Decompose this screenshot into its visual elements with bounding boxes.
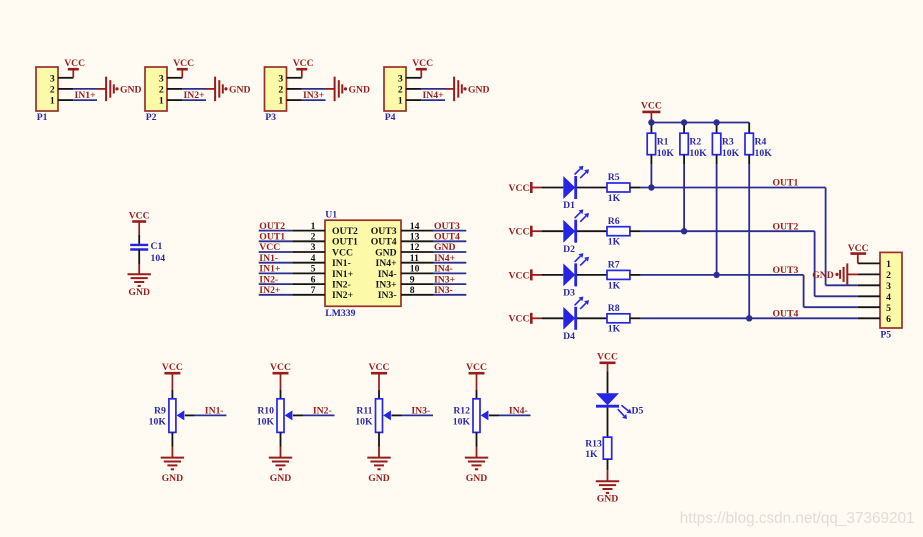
U1 pin 13 stub bbox=[401, 232, 433, 243]
wire OUT3 to P5 bbox=[804, 275, 858, 307]
svg-text:OUT2: OUT2 bbox=[332, 226, 358, 237]
power VCC at R11 bbox=[369, 362, 390, 390]
svg-text:3: 3 bbox=[311, 242, 316, 253]
power VCC at D3 bbox=[509, 269, 543, 281]
svg-text:D5: D5 bbox=[632, 405, 644, 416]
P5 pin 5 stub bbox=[858, 306, 880, 308]
svg-text:14: 14 bbox=[410, 221, 420, 232]
svg-text:IN1+: IN1+ bbox=[75, 90, 97, 101]
svg-text:VCC: VCC bbox=[270, 362, 291, 373]
svg-text:R6: R6 bbox=[608, 216, 620, 227]
svg-text:OUT2: OUT2 bbox=[259, 221, 285, 232]
svg-text:VCC: VCC bbox=[509, 227, 530, 238]
wire U1 pin 11 bbox=[433, 262, 466, 264]
svg-text:IN1-: IN1- bbox=[259, 253, 278, 264]
P1 pin 2 stub bbox=[58, 88, 73, 90]
svg-text:10K: 10K bbox=[657, 148, 675, 159]
R10 bottom stub bbox=[280, 432, 282, 457]
svg-text:IN3+: IN3+ bbox=[375, 280, 397, 291]
D4 cathode stub bbox=[577, 317, 607, 319]
svg-text:1K: 1K bbox=[608, 237, 621, 248]
svg-text:3: 3 bbox=[278, 73, 283, 84]
R12 top stub bbox=[476, 390, 478, 399]
net label IN3- right bbox=[434, 285, 453, 296]
R2 top stub bbox=[683, 123, 685, 134]
R9 bottom stub bbox=[171, 432, 173, 457]
svg-text:OUT3: OUT3 bbox=[371, 226, 397, 237]
svg-text:https://blog.csdn.net/qq_37369: https://blog.csdn.net/qq_37369201 bbox=[680, 510, 915, 527]
svg-text:IN4+: IN4+ bbox=[434, 253, 456, 264]
svg-text:IN4-: IN4- bbox=[434, 264, 453, 275]
junction OUT3 bbox=[713, 272, 719, 278]
svg-text:VCC: VCC bbox=[509, 183, 530, 194]
svg-text:OUT3: OUT3 bbox=[773, 265, 799, 276]
ground GND at D5 bbox=[596, 481, 619, 504]
R3 top stub bbox=[716, 123, 718, 134]
power VCC at D4 bbox=[509, 313, 543, 325]
P4 pin 1 stub bbox=[406, 99, 421, 101]
wire P2 pin2 to GND bbox=[182, 88, 215, 90]
power VCC at P1 bbox=[64, 58, 85, 78]
svg-text:IN4-: IN4- bbox=[378, 269, 397, 280]
net label IN1- bbox=[205, 406, 224, 417]
svg-text:GND: GND bbox=[368, 473, 390, 484]
resistor R1 10K bbox=[647, 133, 674, 159]
svg-text:9: 9 bbox=[410, 274, 415, 285]
P5 pin 3 stub bbox=[858, 284, 880, 286]
svg-text:IN2+: IN2+ bbox=[184, 90, 206, 101]
net label IN2- left bbox=[259, 274, 278, 285]
svg-text:10K: 10K bbox=[257, 416, 275, 427]
wire OUT4 bbox=[641, 317, 858, 319]
R13 bottom stub bbox=[607, 459, 609, 481]
resistor R6 1K bbox=[607, 216, 630, 248]
svg-text:10K: 10K bbox=[755, 148, 773, 159]
R10 top stub bbox=[280, 390, 282, 399]
junction OUT2 bbox=[681, 228, 687, 234]
connector P4 bbox=[384, 67, 406, 123]
U1 pin 6 stub bbox=[292, 274, 325, 285]
net label IN3- bbox=[411, 406, 430, 417]
P4 pin 3 stub bbox=[406, 77, 421, 79]
svg-text:IN1+: IN1+ bbox=[259, 264, 281, 275]
power VCC at P4 bbox=[412, 58, 433, 78]
svg-text:1K: 1K bbox=[608, 324, 621, 335]
P2 pin 2 stub bbox=[167, 88, 182, 90]
svg-text:OUT4: OUT4 bbox=[371, 237, 397, 248]
svg-text:P5: P5 bbox=[880, 330, 891, 341]
svg-text:VCC: VCC bbox=[259, 242, 280, 253]
svg-text:OUT2: OUT2 bbox=[773, 221, 799, 232]
wire U1 pin 13 bbox=[433, 240, 466, 242]
svg-text:OUT1: OUT1 bbox=[773, 178, 799, 189]
resistor R5 1K bbox=[607, 172, 630, 204]
resistor R3 10K bbox=[712, 133, 739, 159]
ground GND at P5 bbox=[812, 263, 858, 285]
svg-text:IN3+: IN3+ bbox=[434, 274, 456, 285]
ground GND at R9 bbox=[161, 458, 184, 484]
P1 pin 3 stub bbox=[58, 77, 73, 79]
R4 bottom stub bbox=[748, 155, 750, 165]
LED D1 bbox=[563, 166, 589, 212]
U1 value LM339 bbox=[325, 308, 355, 319]
power VCC at R10 bbox=[270, 362, 291, 390]
net label OUT2 bbox=[773, 221, 799, 232]
power VCC at P2 bbox=[173, 58, 194, 78]
power VCC at R12 bbox=[466, 362, 487, 390]
R5 right stub bbox=[630, 187, 641, 189]
svg-text:IN3+: IN3+ bbox=[303, 90, 325, 101]
junction bus-R2 bbox=[681, 119, 687, 125]
wire U1 pin 5 bbox=[259, 272, 293, 274]
resistor R2 10K bbox=[680, 133, 707, 159]
svg-text:2: 2 bbox=[278, 85, 283, 96]
svg-text:1: 1 bbox=[50, 96, 55, 107]
svg-text:2: 2 bbox=[886, 270, 891, 281]
net label IN2+ left bbox=[259, 285, 281, 296]
D4 anode stub bbox=[542, 317, 563, 319]
svg-text:IN3-: IN3- bbox=[434, 285, 453, 296]
wire C1 bottom bbox=[138, 250, 140, 275]
svg-text:OUT3: OUT3 bbox=[434, 221, 460, 232]
D3 anode stub bbox=[542, 274, 563, 276]
svg-text:IN2-: IN2- bbox=[332, 280, 351, 291]
P5 pin 4 stub bbox=[858, 295, 880, 297]
wire U1 pin 9 bbox=[433, 283, 466, 285]
svg-text:OUT4: OUT4 bbox=[773, 309, 799, 320]
wire VCC bus bbox=[651, 122, 749, 124]
net label OUT3 bbox=[773, 265, 799, 276]
svg-text:8: 8 bbox=[410, 285, 415, 296]
svg-text:1K: 1K bbox=[608, 193, 621, 204]
svg-text:GND: GND bbox=[162, 473, 184, 484]
U1 pin 1 stub bbox=[292, 221, 325, 232]
ground GND at P1 bbox=[106, 77, 141, 102]
net label IN4- bbox=[509, 406, 528, 417]
svg-text:R11: R11 bbox=[356, 405, 372, 416]
svg-text:1K: 1K bbox=[585, 449, 598, 460]
wire R4 to OUT4 bbox=[748, 165, 750, 318]
wire R2 to OUT2 bbox=[683, 165, 685, 231]
svg-text:R9: R9 bbox=[154, 405, 166, 416]
wire P3 pin1 net IN3+ bbox=[302, 99, 326, 101]
R6 right stub bbox=[630, 230, 641, 232]
svg-text:VCC: VCC bbox=[369, 362, 390, 373]
net label IN4+ bbox=[423, 90, 445, 101]
net label GND right bbox=[434, 242, 456, 253]
svg-text:D3: D3 bbox=[563, 288, 575, 299]
svg-text:D1: D1 bbox=[563, 200, 575, 211]
power VCC at P5 bbox=[848, 243, 869, 263]
svg-text:U1: U1 bbox=[325, 209, 337, 220]
net label IN3+ right bbox=[434, 274, 456, 285]
power VCC at R1-R4 bus bbox=[641, 101, 662, 123]
svg-text:R13: R13 bbox=[585, 438, 602, 449]
wire U1 pin 6 bbox=[259, 283, 293, 285]
svg-text:1: 1 bbox=[311, 221, 316, 232]
D3 cathode stub bbox=[577, 274, 607, 276]
svg-text:GND: GND bbox=[434, 242, 456, 253]
ground GND at R11 bbox=[367, 458, 390, 484]
svg-text:IN4-: IN4- bbox=[509, 406, 528, 417]
R12 bottom stub bbox=[476, 432, 478, 457]
R4 top stub bbox=[748, 123, 750, 134]
svg-text:IN1+: IN1+ bbox=[332, 269, 354, 280]
U1 pin 2 stub bbox=[292, 232, 325, 243]
svg-text:2: 2 bbox=[159, 85, 164, 96]
svg-text:IN2-: IN2- bbox=[259, 274, 278, 285]
svg-text:13: 13 bbox=[410, 232, 420, 243]
svg-text:5: 5 bbox=[311, 264, 316, 275]
svg-text:3: 3 bbox=[159, 73, 164, 84]
ground GND at P3 bbox=[335, 77, 370, 102]
P2 pin 1 stub bbox=[167, 99, 182, 101]
U1 pin 7 stub bbox=[292, 285, 325, 296]
R11 bottom stub bbox=[378, 432, 380, 457]
svg-text:VCC: VCC bbox=[597, 352, 618, 363]
svg-text:1K: 1K bbox=[608, 280, 621, 291]
D1 cathode stub bbox=[577, 187, 607, 189]
U1 pin 5 stub bbox=[292, 264, 325, 275]
R2 bottom stub bbox=[683, 155, 685, 165]
svg-text:10K: 10K bbox=[355, 416, 373, 427]
P2 pin 3 stub bbox=[167, 77, 182, 79]
connector P3 bbox=[265, 67, 287, 123]
svg-text:GND: GND bbox=[120, 84, 142, 95]
svg-text:IN3-: IN3- bbox=[378, 290, 397, 301]
R7 right stub bbox=[630, 274, 641, 276]
potentiometer R9 10K bbox=[149, 399, 176, 433]
P4 pin 2 stub bbox=[406, 88, 421, 90]
U1 pin 9 stub bbox=[401, 274, 433, 285]
resistor R13 1K bbox=[585, 437, 612, 460]
junction OUT1 bbox=[648, 184, 654, 190]
connector P1 bbox=[36, 67, 58, 123]
wire OUT1 to P5 bbox=[826, 188, 858, 286]
R9 top stub bbox=[171, 390, 173, 399]
svg-text:R4: R4 bbox=[755, 136, 767, 147]
svg-text:6: 6 bbox=[886, 314, 891, 325]
op-amp U1 LM339 body bbox=[325, 220, 401, 306]
ground GND at R12 bbox=[465, 458, 488, 484]
svg-text:VCC: VCC bbox=[641, 101, 662, 112]
svg-text:P1: P1 bbox=[37, 112, 48, 123]
capacitor C1 bbox=[130, 241, 165, 264]
svg-text:10K: 10K bbox=[722, 148, 740, 159]
svg-text:VCC: VCC bbox=[162, 362, 183, 373]
power VCC at C1 bbox=[129, 210, 150, 235]
potentiometer R12 10K bbox=[453, 399, 480, 433]
net label IN2+ bbox=[184, 90, 206, 101]
D2 cathode stub bbox=[577, 230, 607, 232]
net label OUT2 left bbox=[259, 221, 285, 232]
svg-text:7: 7 bbox=[311, 285, 316, 296]
wire U1 pin 4 bbox=[259, 262, 293, 264]
svg-text:1: 1 bbox=[398, 96, 403, 107]
svg-text:VCC: VCC bbox=[173, 58, 194, 69]
wire R1 to OUT1 bbox=[650, 165, 652, 188]
wire OUT2 to P5 bbox=[815, 231, 858, 296]
svg-text:VCC: VCC bbox=[466, 362, 487, 373]
svg-text:R8: R8 bbox=[608, 303, 620, 314]
svg-text:IN2+: IN2+ bbox=[259, 285, 281, 296]
ground GND at P2 bbox=[215, 77, 250, 102]
P5 pin 1 stub bbox=[858, 262, 880, 264]
wire OUT2 bbox=[641, 230, 815, 232]
svg-text:LM339: LM339 bbox=[325, 308, 355, 319]
svg-text:GND: GND bbox=[270, 473, 292, 484]
svg-text:VCC: VCC bbox=[412, 58, 433, 69]
wire U1 pin 3 bbox=[259, 251, 293, 253]
U1 pin 4 stub bbox=[292, 253, 325, 264]
potentiometer R11 10K bbox=[355, 399, 382, 433]
net label IN4+ right bbox=[434, 253, 456, 264]
P5 pin 6 stub bbox=[858, 317, 880, 319]
svg-text:P4: P4 bbox=[385, 112, 396, 123]
wire P4 pin2 to GND bbox=[421, 88, 454, 90]
P1 pin 1 stub bbox=[58, 99, 73, 101]
net label IN3+ bbox=[303, 90, 325, 101]
svg-text:VCC: VCC bbox=[64, 58, 85, 69]
U1 pin 3 stub bbox=[292, 242, 325, 253]
svg-text:3: 3 bbox=[398, 73, 403, 84]
R11 top stub bbox=[378, 390, 380, 399]
U1 designator bbox=[325, 209, 337, 220]
svg-text:10K: 10K bbox=[689, 148, 707, 159]
wire OUT1 bbox=[641, 187, 826, 189]
svg-text:1: 1 bbox=[886, 259, 891, 270]
D5 cathode stub bbox=[607, 408, 609, 438]
svg-text:10K: 10K bbox=[149, 416, 167, 427]
svg-text:3: 3 bbox=[50, 73, 55, 84]
R1 bottom stub bbox=[650, 155, 652, 165]
svg-text:2: 2 bbox=[50, 85, 55, 96]
svg-text:IN1-: IN1- bbox=[205, 406, 224, 417]
svg-text:11: 11 bbox=[410, 253, 419, 264]
svg-text:1: 1 bbox=[278, 96, 283, 107]
svg-text:6: 6 bbox=[311, 274, 316, 285]
svg-text:GND: GND bbox=[468, 84, 490, 95]
svg-text:P3: P3 bbox=[265, 112, 276, 123]
wire U1 pin 7 bbox=[259, 294, 293, 296]
R9 wiper bbox=[177, 410, 227, 420]
svg-text:IN2-: IN2- bbox=[313, 406, 332, 417]
svg-text:D2: D2 bbox=[563, 244, 575, 255]
wire U1 pin 8 bbox=[433, 294, 466, 296]
svg-text:GND: GND bbox=[229, 84, 251, 95]
svg-text:VCC: VCC bbox=[509, 314, 530, 325]
wire P1 pin2 to GND bbox=[73, 88, 106, 90]
junction OUT4 bbox=[746, 315, 752, 321]
P3 pin 2 stub bbox=[287, 88, 302, 90]
P3 pin 1 stub bbox=[287, 99, 302, 101]
svg-text:R5: R5 bbox=[608, 172, 620, 183]
LED D4 bbox=[563, 297, 589, 343]
ground GND at C1 bbox=[128, 274, 151, 298]
resistor R8 1K bbox=[607, 303, 630, 335]
wire U1 pin 10 bbox=[433, 272, 466, 274]
U1 pin 14 stub bbox=[401, 221, 433, 232]
net label OUT1 left bbox=[259, 232, 285, 243]
net label OUT4 right bbox=[434, 232, 460, 243]
svg-text:GND: GND bbox=[375, 247, 397, 258]
watermark bbox=[680, 510, 915, 527]
svg-text:4: 4 bbox=[311, 253, 316, 264]
connector P5 bbox=[880, 252, 902, 340]
net label IN2- bbox=[313, 406, 332, 417]
power VCC at D5 bbox=[597, 352, 618, 372]
R1 top stub bbox=[650, 123, 652, 134]
ground GND at R10 bbox=[269, 458, 292, 484]
U1 pin 12 stub bbox=[401, 242, 433, 253]
power VCC at D2 bbox=[509, 226, 543, 238]
svg-text:P2: P2 bbox=[146, 112, 157, 123]
svg-text:VCC: VCC bbox=[332, 247, 353, 258]
wire OUT3 bbox=[641, 274, 804, 276]
svg-text:3: 3 bbox=[886, 281, 891, 292]
svg-text:OUT1: OUT1 bbox=[259, 232, 285, 243]
svg-text:R2: R2 bbox=[689, 136, 701, 147]
svg-text:12: 12 bbox=[410, 242, 420, 253]
wire R3 to OUT3 bbox=[716, 165, 718, 275]
svg-text:GND: GND bbox=[466, 473, 488, 484]
power VCC at D1 bbox=[509, 182, 543, 194]
resistor R4 10K bbox=[745, 133, 772, 159]
net label IN1+ bbox=[75, 90, 97, 101]
power VCC at R9 bbox=[162, 362, 183, 390]
junction bus-R1 bbox=[648, 119, 654, 125]
svg-text:5: 5 bbox=[886, 303, 891, 314]
svg-text:OUT4: OUT4 bbox=[434, 232, 460, 243]
svg-text:R12: R12 bbox=[453, 405, 470, 416]
svg-text:IN2+: IN2+ bbox=[332, 290, 354, 301]
svg-text:D4: D4 bbox=[563, 331, 575, 342]
svg-text:IN3-: IN3- bbox=[411, 406, 430, 417]
D2 anode stub bbox=[542, 230, 563, 232]
U1 pin 8 stub bbox=[401, 285, 433, 296]
svg-text:104: 104 bbox=[151, 253, 166, 264]
svg-text:IN4+: IN4+ bbox=[375, 258, 397, 269]
power VCC at P3 bbox=[293, 58, 314, 78]
P5 pin 2 stub bbox=[858, 273, 880, 275]
svg-text:OUT1: OUT1 bbox=[332, 237, 358, 248]
junction bus-R3 bbox=[713, 119, 719, 125]
svg-text:GND: GND bbox=[349, 84, 371, 95]
wire P2 pin1 net IN2+ bbox=[182, 99, 206, 101]
R8 right stub bbox=[630, 317, 641, 319]
wire U1 pin 14 bbox=[433, 230, 466, 232]
wire C1 top bbox=[138, 235, 140, 244]
wire P3 pin2 to GND bbox=[302, 88, 335, 90]
svg-text:2: 2 bbox=[398, 85, 403, 96]
D1 anode stub bbox=[542, 187, 563, 189]
svg-text:GND: GND bbox=[812, 270, 834, 281]
U1 pin 11 stub bbox=[401, 253, 433, 264]
LED D2 bbox=[563, 209, 589, 255]
D5 anode stub bbox=[607, 371, 609, 393]
LED D5 bbox=[596, 393, 643, 419]
svg-text:4: 4 bbox=[886, 292, 891, 303]
U1 pin 10 stub bbox=[401, 264, 433, 275]
svg-text:1: 1 bbox=[159, 96, 164, 107]
svg-text:R1: R1 bbox=[657, 136, 669, 147]
wire U1 pin 12 bbox=[433, 251, 466, 253]
P3 pin 3 stub bbox=[287, 77, 302, 79]
svg-text:R7: R7 bbox=[608, 260, 620, 271]
svg-text:IN1-: IN1- bbox=[332, 258, 351, 269]
svg-text:GND: GND bbox=[128, 287, 150, 298]
potentiometer R10 10K bbox=[257, 399, 284, 433]
